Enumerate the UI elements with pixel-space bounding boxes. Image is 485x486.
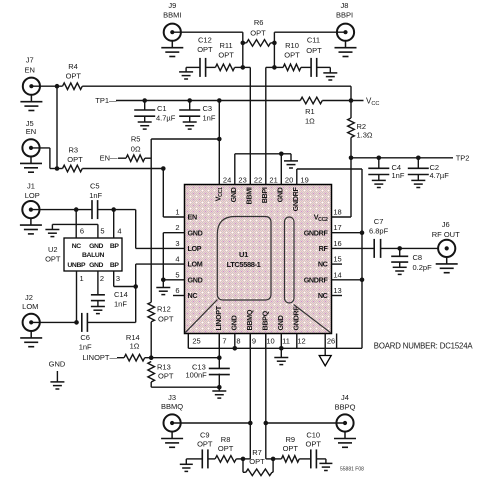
svg-text:OPT: OPT [218, 444, 234, 453]
svg-text:BBMI: BBMI [245, 187, 254, 204]
svg-text:11: 11 [282, 336, 290, 345]
svg-text:OPT: OPT [218, 50, 234, 59]
svg-text:C12: C12 [198, 36, 212, 45]
svg-text:BBPI: BBPI [260, 187, 269, 203]
svg-text:16: 16 [333, 239, 341, 248]
svg-text:1: 1 [175, 208, 179, 217]
svg-text:0Ω: 0Ω [131, 145, 141, 154]
svg-text:19: 19 [300, 175, 308, 184]
svg-text:OPT: OPT [249, 457, 265, 466]
svg-text:OPT: OPT [250, 29, 266, 38]
svg-text:OPT: OPT [284, 50, 300, 59]
svg-text:OPT: OPT [306, 46, 322, 55]
svg-text:TP1—: TP1— [95, 96, 117, 105]
svg-text:22: 22 [254, 175, 262, 184]
svg-text:R1: R1 [305, 107, 315, 116]
svg-text:BBMI: BBMI [163, 11, 181, 20]
svg-text:17: 17 [333, 223, 341, 232]
svg-text:55881 F08: 55881 F08 [340, 467, 364, 473]
svg-text:5: 5 [175, 270, 179, 279]
svg-text:BBPI: BBPI [336, 11, 353, 20]
svg-text:R9: R9 [286, 435, 296, 444]
svg-text:BALUN: BALUN [82, 252, 104, 259]
svg-text:4.7µF: 4.7µF [430, 171, 450, 180]
svg-text:NC: NC [72, 243, 82, 250]
svg-text:6.8pF: 6.8pF [369, 227, 389, 236]
svg-text:C1: C1 [157, 104, 167, 113]
svg-text:R3: R3 [69, 146, 79, 155]
svg-text:EN: EN [26, 127, 36, 136]
svg-text:C11: C11 [307, 35, 320, 44]
svg-text:23: 23 [238, 175, 246, 184]
svg-text:7: 7 [222, 336, 226, 345]
svg-text:18: 18 [333, 208, 341, 217]
svg-text:OPT: OPT [197, 45, 213, 54]
svg-text:GND: GND [229, 187, 238, 202]
svg-text:RF: RF [319, 244, 329, 253]
svg-text:4: 4 [117, 227, 121, 236]
svg-text:26: 26 [327, 336, 335, 345]
svg-text:U1: U1 [239, 250, 248, 259]
svg-text:J6: J6 [442, 220, 450, 229]
svg-text:13: 13 [333, 286, 341, 295]
svg-text:10: 10 [266, 336, 274, 345]
svg-text:OPT: OPT [45, 255, 61, 264]
svg-text:1nF: 1nF [89, 191, 102, 200]
svg-text:J2: J2 [25, 293, 33, 302]
svg-text:5: 5 [100, 227, 104, 236]
svg-text:GNDRF: GNDRF [304, 275, 329, 284]
svg-text:BP: BP [110, 262, 120, 269]
svg-text:J8: J8 [341, 1, 349, 10]
svg-text:GND: GND [188, 228, 203, 237]
svg-text:GND: GND [230, 315, 239, 330]
svg-text:2: 2 [175, 223, 179, 232]
svg-text:20: 20 [285, 175, 293, 184]
svg-text:GND: GND [276, 187, 285, 202]
svg-text:1: 1 [80, 274, 84, 283]
svg-text:U2: U2 [48, 245, 58, 254]
svg-text:C5: C5 [90, 182, 100, 191]
svg-text:NC: NC [318, 291, 328, 300]
svg-text:1nF: 1nF [79, 343, 92, 352]
svg-text:C8: C8 [413, 253, 423, 262]
svg-text:GND: GND [49, 360, 66, 369]
svg-text:OPT: OPT [158, 371, 174, 380]
svg-text:2: 2 [100, 274, 104, 283]
svg-text:OPT: OPT [305, 439, 321, 448]
svg-text:BBPQ: BBPQ [335, 403, 356, 412]
svg-text:0.2pF: 0.2pF [413, 263, 433, 272]
svg-text:BBMQ: BBMQ [161, 402, 183, 411]
svg-text:4.7µF: 4.7µF [156, 114, 176, 123]
svg-text:R2: R2 [357, 122, 367, 131]
svg-text:R10: R10 [285, 41, 299, 50]
svg-text:LINOPT: LINOPT [214, 305, 223, 330]
svg-text:OPT: OPT [67, 155, 83, 164]
svg-text:C14: C14 [114, 290, 128, 299]
svg-text:GNDRF: GNDRF [304, 228, 329, 237]
svg-text:1Ω: 1Ω [305, 117, 315, 126]
svg-text:LTC5588-1: LTC5588-1 [227, 260, 261, 269]
svg-text:15: 15 [333, 255, 341, 264]
svg-text:1.3Ω: 1.3Ω [357, 131, 373, 140]
svg-text:OPT: OPT [158, 315, 174, 324]
svg-text:EN: EN [188, 213, 197, 222]
svg-text:4: 4 [175, 255, 179, 264]
svg-text:GNDRF: GNDRF [291, 187, 300, 212]
svg-text:J4: J4 [341, 393, 349, 402]
svg-text:R11: R11 [219, 41, 232, 50]
svg-text:100nF: 100nF [186, 371, 208, 380]
svg-text:R7: R7 [252, 448, 262, 457]
svg-text:GNDRF: GNDRF [292, 306, 301, 331]
svg-text:8: 8 [236, 336, 240, 345]
svg-text:LOM: LOM [188, 260, 203, 269]
svg-text:J3: J3 [168, 393, 176, 402]
svg-text:J1: J1 [27, 182, 35, 191]
svg-text:C3: C3 [203, 104, 213, 113]
svg-text:UNBP: UNBP [67, 262, 86, 269]
svg-text:6: 6 [175, 286, 179, 295]
svg-text:12: 12 [297, 336, 305, 345]
svg-text:LINOPT—: LINOPT— [82, 353, 117, 362]
svg-text:J9: J9 [168, 1, 176, 10]
svg-text:OPT: OPT [283, 444, 299, 453]
svg-text:GND: GND [89, 243, 103, 250]
svg-text:R8: R8 [221, 435, 231, 444]
svg-text:BBMQ: BBMQ [245, 309, 254, 330]
svg-text:C10: C10 [306, 430, 320, 439]
svg-text:9: 9 [252, 336, 256, 345]
svg-text:1nF: 1nF [392, 171, 405, 180]
svg-text:1nF: 1nF [203, 114, 216, 123]
svg-text:BBPQ: BBPQ [261, 310, 270, 330]
svg-text:OPT: OPT [197, 439, 213, 448]
svg-text:GND: GND [276, 315, 285, 330]
svg-text:R4: R4 [68, 62, 78, 71]
svg-text:14: 14 [333, 270, 341, 279]
svg-text:C7: C7 [374, 217, 384, 226]
svg-text:GND: GND [188, 275, 203, 284]
svg-text:24: 24 [223, 175, 231, 184]
svg-text:OPT: OPT [66, 72, 82, 81]
svg-text:NC: NC [188, 291, 198, 300]
svg-text:R6: R6 [254, 18, 264, 27]
svg-text:EN: EN [24, 66, 34, 75]
svg-text:BP: BP [110, 243, 120, 250]
svg-text:1Ω: 1Ω [130, 342, 140, 351]
svg-text:C6: C6 [80, 333, 90, 342]
svg-text:EN—: EN— [100, 154, 118, 163]
svg-text:C9: C9 [200, 430, 210, 439]
svg-text:NC: NC [318, 260, 328, 269]
svg-text:25: 25 [192, 336, 200, 345]
svg-text:1nF: 1nF [114, 300, 127, 309]
svg-text:GND: GND [89, 262, 103, 269]
svg-text:R5: R5 [131, 134, 141, 143]
svg-text:LOM: LOM [22, 302, 38, 311]
svg-text:RF OUT: RF OUT [432, 230, 460, 239]
svg-text:LOP: LOP [188, 244, 202, 253]
svg-text:TP2: TP2 [456, 153, 470, 162]
svg-text:J7: J7 [26, 56, 34, 65]
svg-text:3: 3 [116, 274, 120, 283]
svg-text:BOARD NUMBER: DC1524A: BOARD NUMBER: DC1524A [374, 341, 474, 350]
svg-text:LOP: LOP [25, 191, 40, 200]
svg-text:3: 3 [175, 239, 179, 248]
svg-text:R12: R12 [157, 304, 171, 313]
svg-text:21: 21 [269, 175, 277, 184]
svg-text:6: 6 [80, 227, 84, 236]
